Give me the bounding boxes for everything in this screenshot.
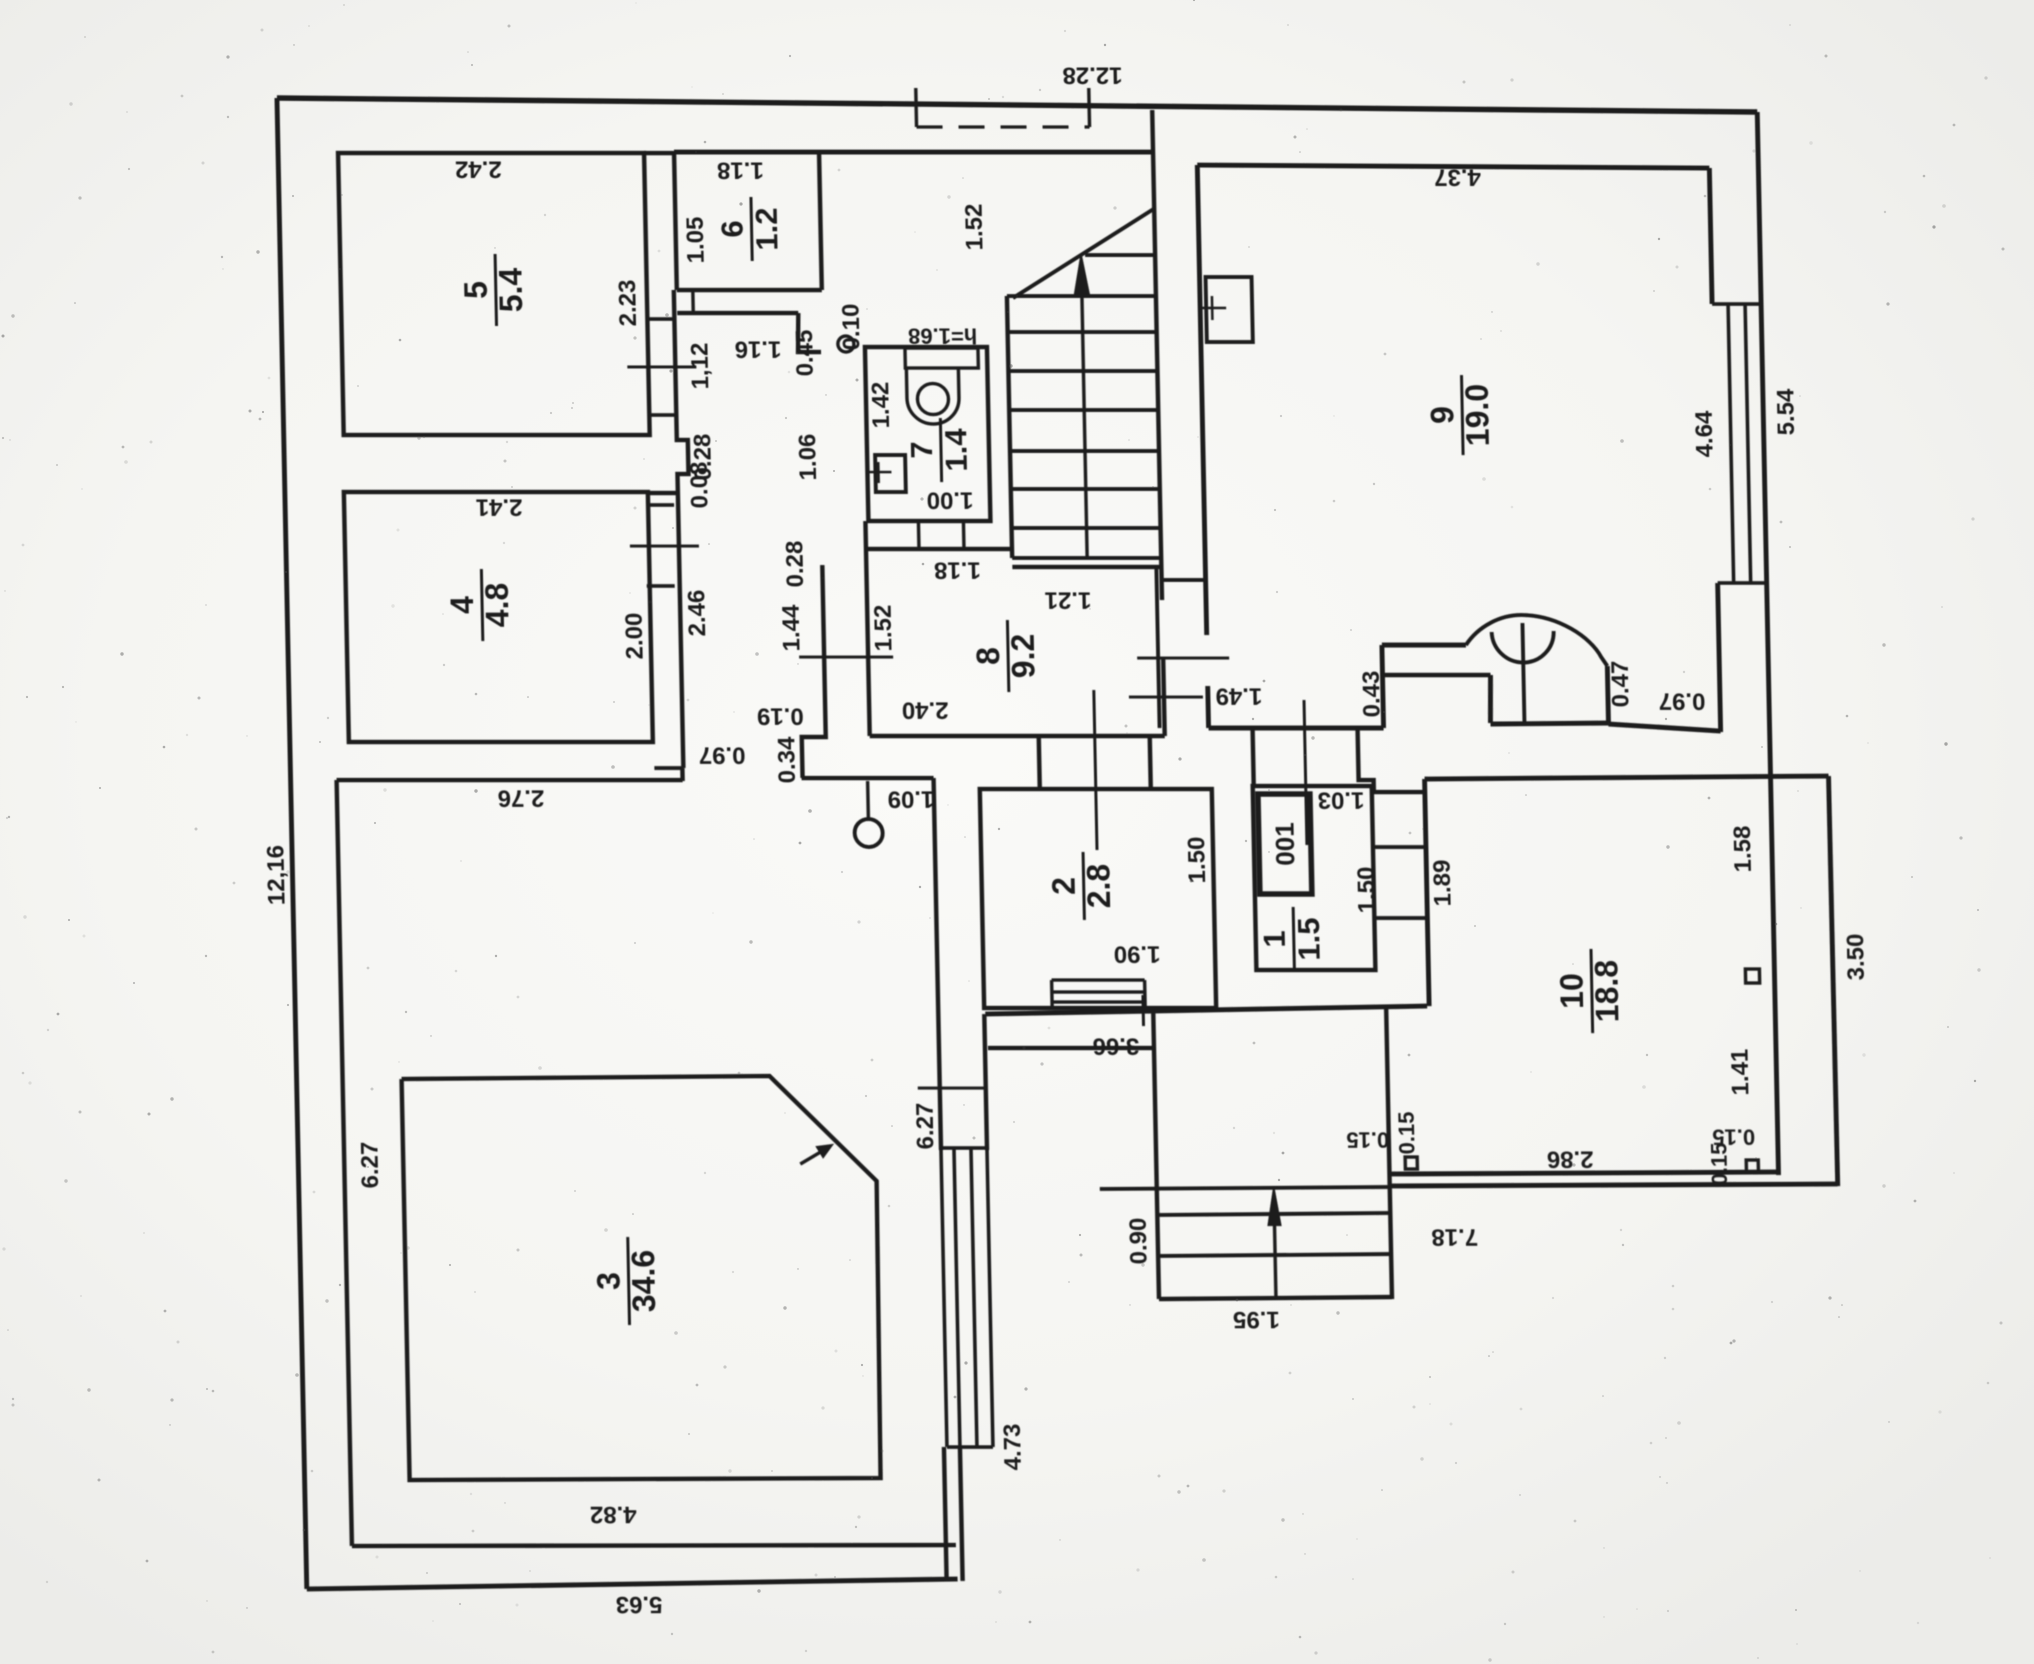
entrance steps up arrow [1274, 1196, 1276, 1297]
room 1 label [1256, 907, 1327, 971]
svg-text:0.15: 0.15 [1394, 1112, 1420, 1155]
dim line room 8 to room 2 [1094, 690, 1097, 850]
room 10 bottom double wall [1391, 1172, 1776, 1174]
outer wall top [277, 98, 1757, 112]
svg-text:2: 2 [1046, 877, 1082, 895]
svg-text:1,12: 1,12 [686, 343, 714, 390]
svg-text:2.40: 2.40 [902, 697, 949, 724]
svg-text:2.23: 2.23 [614, 280, 642, 327]
wall stub stairs to room 9 [1162, 578, 1206, 582]
outer wall left [277, 98, 307, 1589]
svg-text:1.52: 1.52 [870, 605, 898, 652]
dim tick room 4 right [630, 545, 699, 548]
svg-text:1.90: 1.90 [1113, 941, 1160, 968]
room 10 left wall [1425, 779, 1430, 1006]
svg-text:1.2: 1.2 [749, 207, 785, 250]
room 10 label [1553, 949, 1626, 1033]
closet wall left of room 8 [798, 565, 826, 778]
lower-left block top wall [337, 778, 683, 782]
svg-text:0.08: 0.08 [686, 462, 714, 509]
svg-text:1.42: 1.42 [867, 382, 895, 429]
room 3 outline [402, 1076, 883, 1480]
svg-text:1.18: 1.18 [934, 557, 981, 584]
svg-text:1.05: 1.05 [682, 217, 710, 264]
dim tick room 5 right [627, 366, 696, 369]
svg-text:2.8: 2.8 [1081, 864, 1118, 908]
svg-text:1.58: 1.58 [1729, 826, 1757, 873]
wall stubs right of room 5 [645, 317, 673, 321]
corridor top wall below room 6 [677, 311, 798, 315]
svg-text:0.19: 0.19 [757, 703, 804, 730]
room 6 outline [674, 152, 677, 290]
passage walls room 8 to room 2 [1039, 736, 1040, 789]
svg-text:0.28: 0.28 [781, 541, 809, 588]
svg-text:19.0: 19.0 [1459, 384, 1496, 446]
room 9 top wall [1197, 165, 1709, 168]
outer wall bottom [307, 1579, 958, 1589]
door swing arcs [1465, 615, 1607, 666]
stub room 4 top wall to corridor wall [648, 491, 678, 495]
svg-text:2.76: 2.76 [497, 785, 544, 812]
room 10 top wall [1425, 776, 1829, 779]
svg-text:0.34: 0.34 [773, 736, 801, 783]
svg-text:3: 3 [590, 1272, 626, 1290]
svg-text:5.63: 5.63 [615, 1591, 662, 1618]
svg-text:2.86: 2.86 [1547, 1146, 1594, 1173]
svg-text:1.06: 1.06 [794, 434, 822, 481]
dim line lobby [1304, 700, 1307, 845]
lobby wall left of room 1 [1253, 727, 1254, 786]
dim tick hall left wall [918, 1087, 987, 1090]
svg-text:18.8: 18.8 [1588, 960, 1625, 1022]
wall stubs right of room 4 [646, 503, 674, 507]
001 plate in room 1 [1258, 794, 1312, 894]
staircase treads [1085, 253, 1155, 257]
small square upper in room 10 [1745, 969, 1759, 983]
steps inside room 2 [1050, 980, 1054, 1008]
room 9 label [1424, 375, 1497, 455]
window band left of hall [941, 1148, 947, 1447]
staircase bottom wall [1012, 565, 1161, 569]
svg-text:1.89: 1.89 [1429, 860, 1457, 907]
lower-left block left wall [337, 780, 352, 1546]
svg-text:1.21: 1.21 [1044, 587, 1091, 614]
stub stair hall top wall to outer wall [1150, 110, 1155, 152]
room 8 left wall [865, 521, 869, 736]
svg-text:4.82: 4.82 [590, 1501, 637, 1528]
room 8 bottom wall [870, 734, 1165, 738]
svg-text:6.27: 6.27 [356, 1142, 384, 1189]
svg-text:10: 10 [1553, 973, 1590, 1009]
toilet bowl [906, 368, 959, 424]
svg-text:2.42: 2.42 [455, 156, 502, 183]
room 3 entry arrow [800, 1150, 824, 1164]
room 8 top wall [866, 547, 1012, 551]
svg-text:1.5: 1.5 [1291, 917, 1327, 960]
corridor left wall with jogs [674, 290, 695, 768]
pipe circle at corridor wall [838, 336, 854, 352]
room 1 outline [1253, 786, 1376, 970]
stub under room 6 [691, 290, 695, 313]
svg-text:34.6: 34.6 [625, 1250, 662, 1312]
room 4 label [443, 569, 516, 641]
riser circle below wall [866, 781, 870, 819]
staircase center line with up arrow [1081, 262, 1087, 558]
door stubs room 1 to room 10 [1372, 845, 1426, 849]
dim tick hall bottom [1141, 995, 1145, 1026]
svg-text:12.28: 12.28 [1062, 62, 1123, 89]
svg-text:h=1.68: h=1.68 [908, 324, 978, 349]
lower-left block bottom wall [352, 1545, 956, 1546]
room 9 right wall [1709, 168, 1712, 304]
room 7 label [903, 418, 974, 482]
svg-text:1.18: 1.18 [717, 157, 764, 184]
room 9 bottom wall with niche [1209, 726, 1384, 731]
dim ticks right of room 8 [1137, 657, 1229, 660]
room 2 label [1045, 852, 1118, 920]
svg-text:1.41: 1.41 [1726, 1049, 1754, 1096]
room 3 label [590, 1237, 663, 1325]
room 7 toilet room outline [865, 347, 990, 521]
svg-text:0.43: 0.43 [1358, 671, 1386, 718]
svg-text:0.97: 0.97 [1658, 688, 1705, 715]
svg-text:5.54: 5.54 [1772, 388, 1800, 435]
hall bottom wall [985, 1006, 1427, 1014]
room 5 label [457, 254, 530, 326]
svg-text:8: 8 [970, 647, 1006, 665]
svg-text:4: 4 [444, 596, 480, 614]
hall top wall over stairs [674, 150, 1153, 155]
svg-text:1.16: 1.16 [734, 336, 781, 363]
svg-text:3.66: 3.66 [1092, 1033, 1139, 1060]
svg-text:0.10: 0.10 [838, 304, 866, 351]
svg-text:0.15: 0.15 [1346, 1128, 1389, 1153]
svg-text:1.52: 1.52 [961, 204, 989, 251]
svg-text:001: 001 [1269, 822, 1300, 865]
svg-text:7: 7 [904, 441, 939, 458]
svg-text:9.2: 9.2 [1005, 634, 1042, 678]
svg-text:0.90: 0.90 [1125, 1218, 1153, 1265]
room 2 outline [980, 789, 1216, 1008]
svg-text:2.41: 2.41 [476, 494, 523, 521]
outer wall right [1757, 112, 1778, 1175]
toilet cistern [905, 348, 978, 368]
stub room 5 top wall to corridor wall [644, 151, 674, 155]
staircase left wall [1007, 296, 1012, 558]
entrance steps block [1153, 1012, 1159, 1299]
vent box room 7 with plus [875, 455, 906, 492]
small square on bottom wall [1405, 1157, 1417, 1169]
svg-text:1: 1 [1257, 930, 1292, 947]
small square lower in room 10 [1746, 1160, 1758, 1172]
svg-text:1.95: 1.95 [1233, 1306, 1280, 1333]
hall left wall above window [934, 778, 941, 1150]
svg-text:0.97: 0.97 [698, 742, 745, 769]
svg-text:0.15: 0.15 [1706, 1143, 1732, 1186]
svg-text:7.18: 7.18 [1431, 1224, 1478, 1251]
room 5 outline [338, 153, 650, 435]
room 6 label [714, 197, 785, 261]
svg-text:4.73: 4.73 [999, 1424, 1027, 1471]
svg-text:5: 5 [458, 281, 494, 299]
lower-left block right wall below window [944, 1447, 947, 1581]
vent box room 9 with plus [1206, 277, 1253, 342]
porch dashed opening on top wall [914, 88, 918, 127]
svg-text:1.09: 1.09 [887, 786, 934, 813]
dim tick corridor bottom [799, 656, 893, 659]
room 10 outer right wall [1829, 776, 1838, 1186]
svg-text:5.4: 5.4 [493, 268, 530, 313]
svg-text:1.4: 1.4 [938, 428, 974, 472]
svg-text:6: 6 [714, 220, 749, 237]
svg-text:1.44: 1.44 [778, 604, 806, 651]
svg-text:1.00: 1.00 [926, 487, 973, 514]
staircase cut diagonal [1011, 208, 1157, 298]
svg-text:12,16: 12,16 [262, 845, 290, 905]
room 8 right wall with door opening [1153, 152, 1162, 600]
dim stubs below room 7 [917, 521, 921, 549]
svg-text:9: 9 [1424, 406, 1460, 424]
svg-text:4.8: 4.8 [479, 583, 516, 627]
svg-text:3.50: 3.50 [1842, 934, 1870, 981]
svg-text:1.50: 1.50 [1183, 837, 1211, 884]
room 8 label [969, 620, 1042, 692]
svg-text:0.45: 0.45 [791, 330, 819, 377]
svg-text:6.27: 6.27 [912, 1103, 940, 1150]
lobby wall right of room 1 [1358, 727, 1374, 792]
window in room 9 right wall [1712, 302, 1761, 306]
room 4 outline [344, 492, 653, 742]
svg-text:4.37: 4.37 [1434, 164, 1481, 191]
svg-text:1.03: 1.03 [1317, 787, 1364, 814]
svg-text:1.49: 1.49 [1215, 683, 1262, 710]
svg-text:1.50: 1.50 [1353, 867, 1381, 914]
svg-text:2.46: 2.46 [683, 590, 711, 637]
door leaf room 9 [1522, 623, 1524, 724]
svg-text:2.00: 2.00 [621, 613, 649, 660]
room 9 left wall with opening [1197, 165, 1206, 635]
svg-text:4.64: 4.64 [1691, 410, 1719, 457]
svg-text:0.47: 0.47 [1607, 661, 1635, 708]
